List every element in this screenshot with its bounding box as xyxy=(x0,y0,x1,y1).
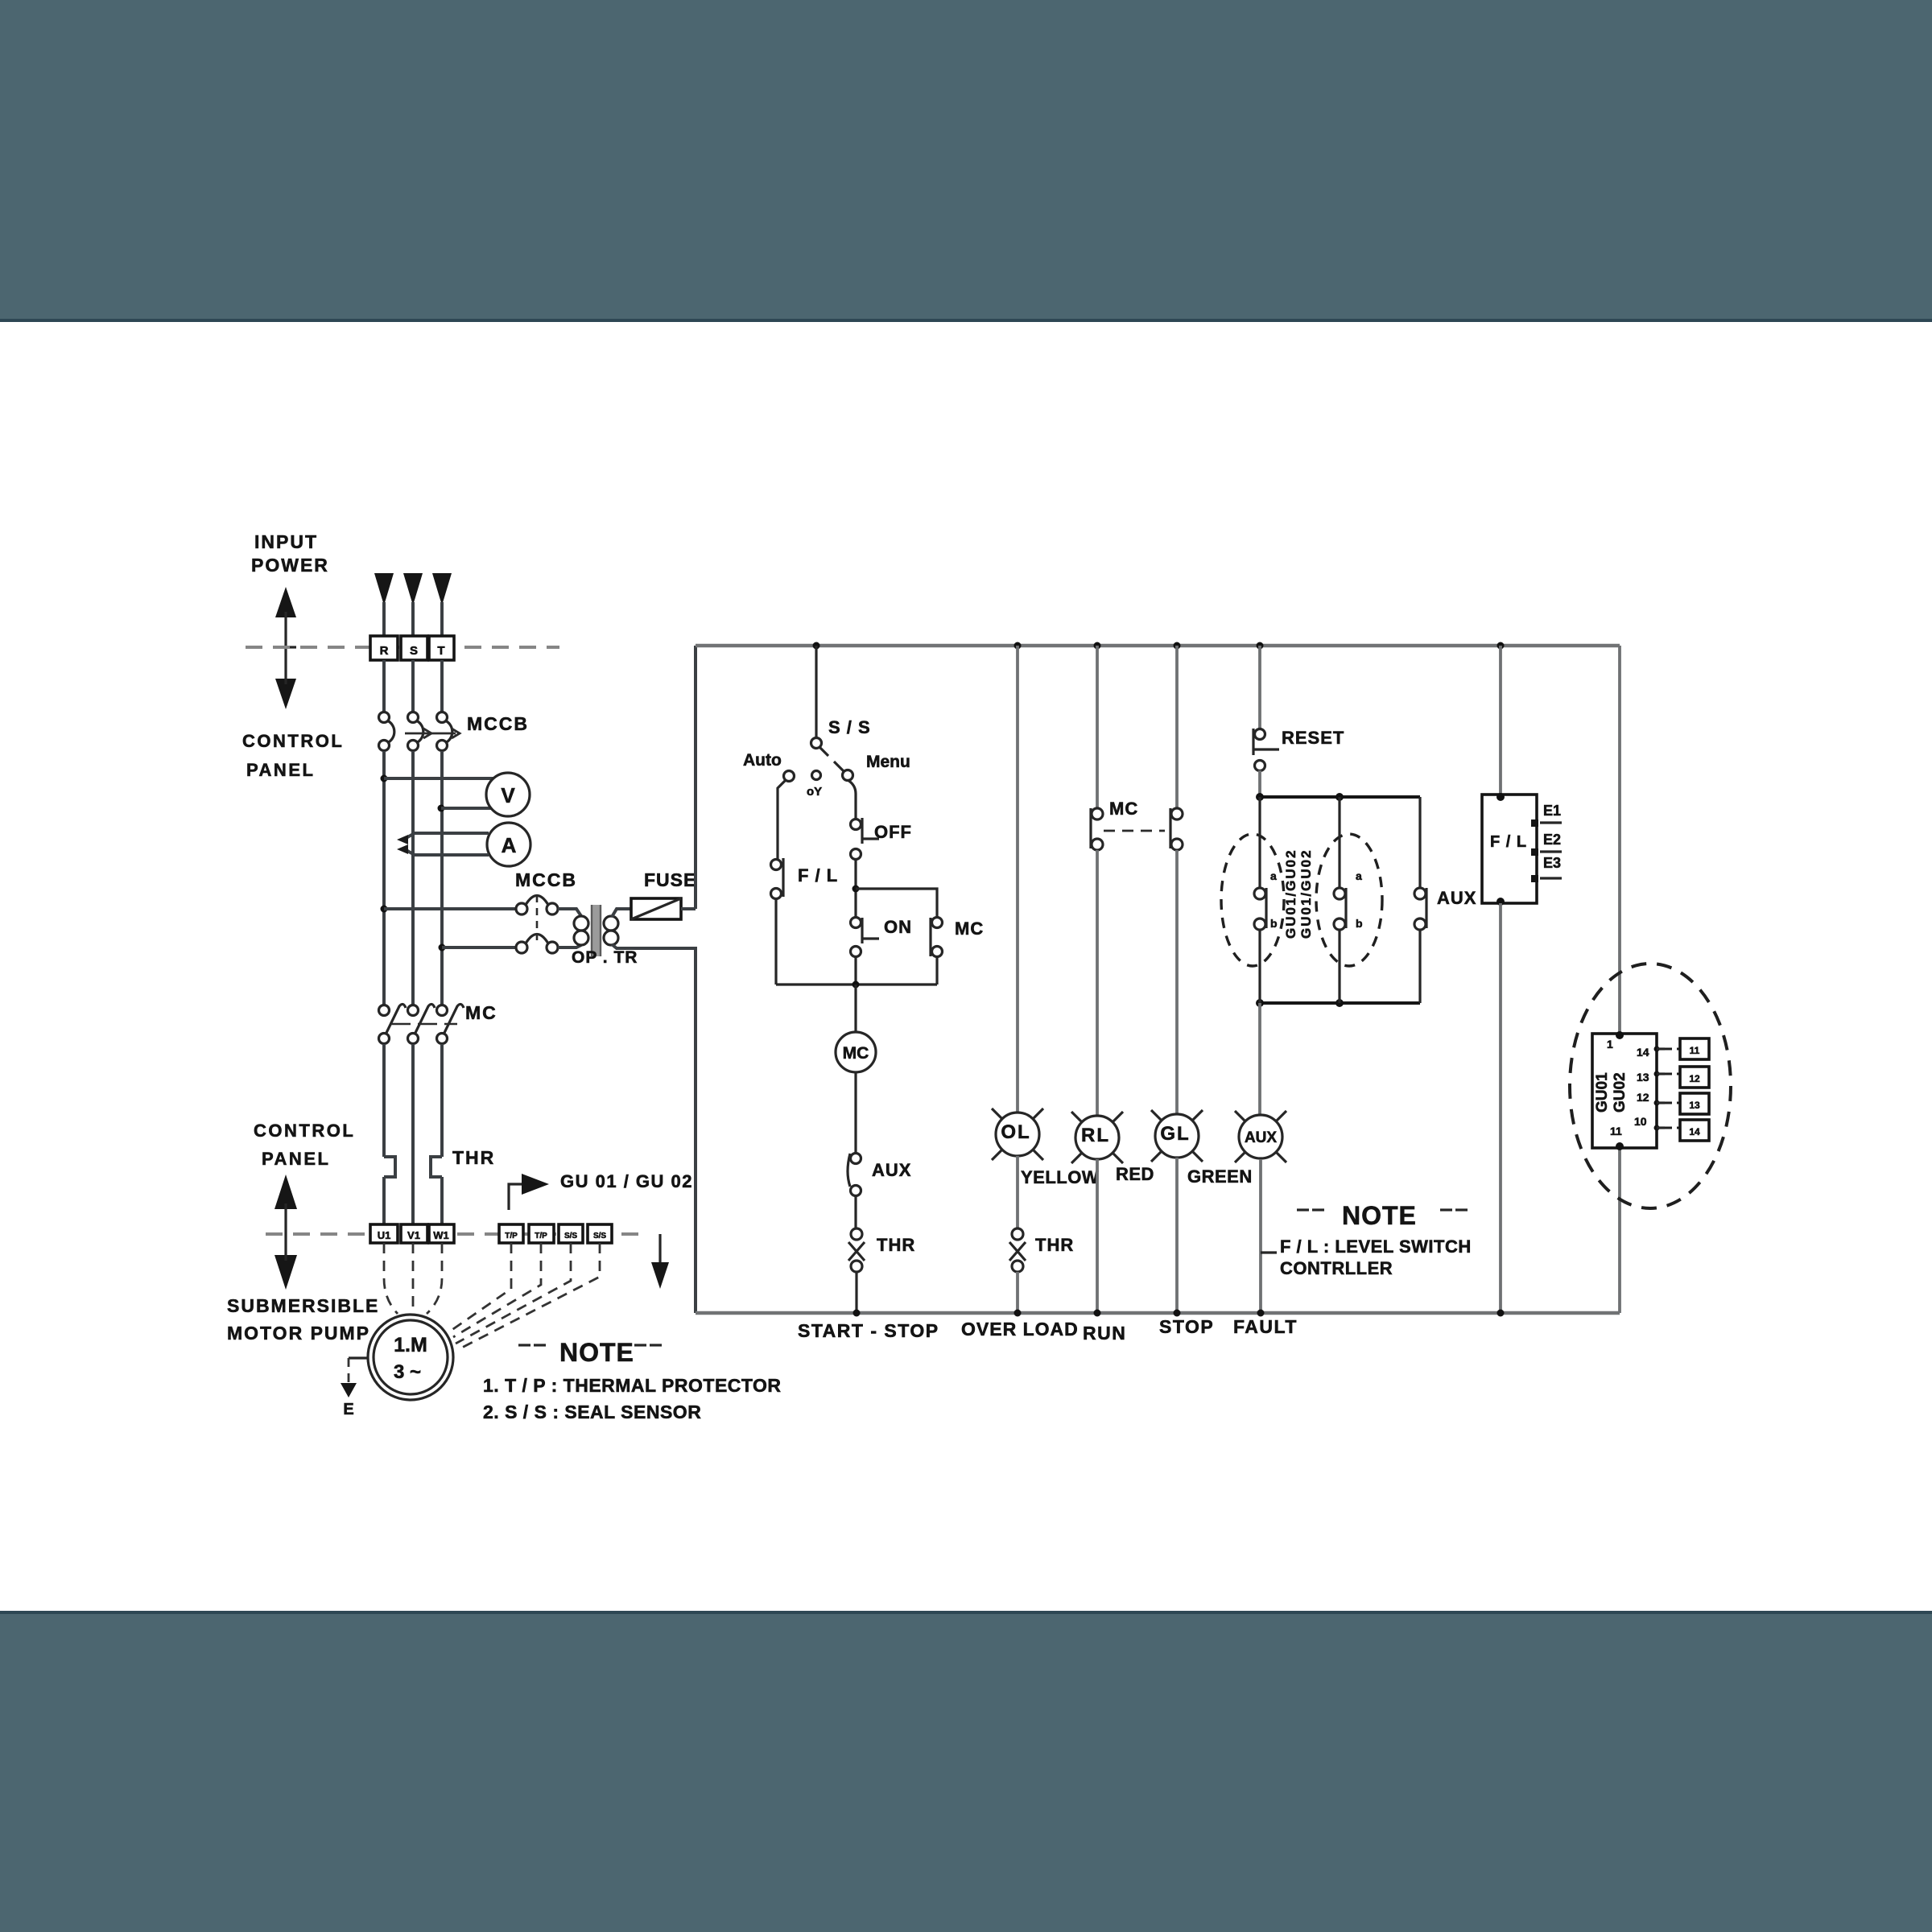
svg-text:3 ~: 3 ~ xyxy=(394,1361,421,1383)
contact F/L (auto level switch) xyxy=(771,858,784,899)
node top rail OL xyxy=(1014,642,1022,650)
node fault bus bottom left xyxy=(1256,999,1264,1007)
ammeter CT leads xyxy=(403,833,489,855)
wire L2 below MCCB xyxy=(411,751,415,1005)
transformer secondary wires xyxy=(612,909,631,917)
down arrow to pump xyxy=(658,1234,661,1264)
svg-text:a: a xyxy=(1356,869,1362,882)
dashed sensor lead 1 xyxy=(451,1243,511,1331)
sensor terminal box S/S b xyxy=(588,1224,612,1243)
lamp RL xyxy=(1071,1112,1123,1163)
wire to MC hold contact xyxy=(856,889,937,917)
svg-text:E1: E1 xyxy=(1543,803,1561,819)
svg-text:1: 1 xyxy=(1607,1038,1613,1051)
wire FAULT column to RESET xyxy=(1258,646,1261,729)
svg-text:POWER: POWER xyxy=(251,555,329,576)
svg-text:E3: E3 xyxy=(1543,855,1561,871)
boundary tick at arrow xyxy=(281,646,296,648)
note leader tick xyxy=(1261,1251,1277,1253)
wire fault branch AUX upper xyxy=(1418,797,1421,888)
wire GL lamp to bottom rail xyxy=(1175,1158,1179,1313)
svg-text:AUX: AUX xyxy=(1437,888,1476,908)
wire Auto branch xyxy=(778,780,786,859)
left rail lower (transformer return to bottom rail) xyxy=(694,948,697,1313)
THR heater element L3 xyxy=(431,1157,442,1177)
svg-text:11: 11 xyxy=(1690,1045,1700,1056)
wire L3 THR to terminal xyxy=(440,1177,444,1224)
motor ground wire xyxy=(349,1356,368,1359)
wire F/L to bottom junction xyxy=(774,898,777,985)
node fault bus top left xyxy=(1256,793,1264,801)
sensor terminal box T/P b xyxy=(529,1224,554,1243)
motor 1.M submersible pump xyxy=(368,1315,453,1400)
wire to voltmeter lower lead xyxy=(441,807,494,810)
node bottom rail GL xyxy=(1174,1310,1181,1317)
svg-text:13: 13 xyxy=(1637,1071,1649,1084)
incoming feeder arrow L2 xyxy=(403,573,423,605)
svg-text:F / L : LEVEL SWITCH: F / L : LEVEL SWITCH xyxy=(1280,1236,1472,1257)
svg-text:b: b xyxy=(1270,917,1278,930)
node L3 control tap xyxy=(439,944,446,952)
dashed sensor lead 3 xyxy=(456,1243,571,1344)
node top rail GL xyxy=(1174,642,1181,650)
GU terminal box 4 xyxy=(1680,1120,1709,1141)
contact GU01 fault (NO) xyxy=(1254,888,1266,930)
svg-text:PANEL: PANEL xyxy=(246,760,315,780)
svg-text:GU02: GU02 xyxy=(1612,1072,1629,1113)
control MCCB pole A xyxy=(516,896,558,915)
incoming feeder arrow L3 xyxy=(432,573,452,605)
terminal E1 xyxy=(1531,819,1538,827)
left rail upper (fuse to top rail) xyxy=(694,646,697,909)
wire L3 to control MCCB xyxy=(442,946,516,949)
svg-text:MC: MC xyxy=(843,1044,869,1063)
svg-text:12: 12 xyxy=(1689,1073,1700,1084)
sensor terminal box S/S a xyxy=(559,1224,583,1243)
svg-text:F / L: F / L xyxy=(1490,833,1527,851)
svg-text:MC: MC xyxy=(1109,799,1138,819)
note header (right) xyxy=(1297,1208,1468,1211)
motor terminal box W1 xyxy=(429,1224,454,1243)
wire Menu branch to OFF xyxy=(848,780,856,819)
THR heater element L1 xyxy=(384,1157,395,1177)
wire RL contact to lamp xyxy=(1096,850,1099,1116)
svg-text:14: 14 xyxy=(1689,1126,1700,1137)
contact THR trip (overload) xyxy=(1009,1228,1026,1272)
wire ON to bottom junction xyxy=(854,957,857,985)
node bottom junction xyxy=(852,981,860,989)
node top rail FAULT xyxy=(1257,642,1264,650)
wire GL column upper xyxy=(1175,646,1179,808)
contact MC (run lamp NO) xyxy=(1091,808,1103,850)
wire AUX lamp to bottom rail xyxy=(1259,1159,1262,1313)
svg-text:FUSE: FUSE xyxy=(644,869,696,890)
MCCB main breaker pole 3 xyxy=(437,712,452,751)
wire RL column upper xyxy=(1096,646,1099,808)
svg-text:OL: OL xyxy=(1001,1121,1030,1143)
svg-text:T: T xyxy=(437,644,444,658)
node bottom rail OL xyxy=(1014,1310,1022,1317)
MCCB linkage bar with arrows xyxy=(405,729,460,738)
node bottom rail F/L xyxy=(1497,1310,1505,1317)
pushbutton OFF (NC) xyxy=(851,818,880,860)
GU terminal box 2 xyxy=(1680,1067,1709,1088)
bottom banner band xyxy=(0,1611,1932,1614)
svg-text:GU01/GU02: GU01/GU02 xyxy=(1283,848,1298,939)
contact AUX (NO) xyxy=(848,1154,861,1196)
svg-text:THR: THR xyxy=(877,1235,915,1255)
contact GU02 fault (NO) xyxy=(1334,888,1346,930)
contact AUX fault (NO) xyxy=(1414,888,1426,930)
control MCCB linkage dashed xyxy=(536,895,539,940)
control ladder bottom rail xyxy=(696,1311,1620,1315)
svg-text:E: E xyxy=(343,1401,353,1418)
node GU box top xyxy=(1616,1031,1624,1039)
node top rail F/L xyxy=(1497,642,1505,650)
wire RL lamp to bottom rail xyxy=(1096,1159,1099,1313)
svg-text:CONTROL: CONTROL xyxy=(242,731,344,751)
wire OL lamp to THR xyxy=(1016,1156,1019,1228)
svg-text:14: 14 xyxy=(1637,1046,1649,1059)
lamp AUX xyxy=(1235,1111,1286,1162)
MC contactor pole 3 xyxy=(437,1004,464,1043)
contact MC holding (NO) xyxy=(931,918,943,957)
svg-text:START - STOP: START - STOP xyxy=(798,1320,939,1341)
svg-text:CONTRLLER: CONTRLLER xyxy=(1280,1258,1393,1278)
svg-text:NOTE: NOTE xyxy=(1342,1201,1417,1230)
svg-text:YELLOW: YELLOW xyxy=(1021,1167,1099,1187)
GU pin stub 4 xyxy=(1654,1125,1660,1131)
wire RESET to fault group xyxy=(1258,770,1261,797)
node L1 voltmeter tap xyxy=(381,775,388,782)
contact THR trip (start-stop) xyxy=(848,1228,865,1272)
lamp OL xyxy=(992,1108,1043,1160)
GU terminal box 1 xyxy=(1680,1038,1709,1059)
svg-text:FAULT: FAULT xyxy=(1233,1316,1298,1337)
svg-text:AUX: AUX xyxy=(1245,1129,1277,1146)
dashed motor lead U xyxy=(384,1243,398,1314)
svg-text:13: 13 xyxy=(1689,1100,1700,1111)
svg-text:MCCB: MCCB xyxy=(515,869,577,890)
control MCCB pole B xyxy=(516,935,558,954)
sensor terminal box T/P a xyxy=(499,1224,523,1243)
svg-text:NOTE: NOTE xyxy=(559,1338,634,1367)
wire L2 drop to terminal xyxy=(411,602,415,636)
svg-text:T/P: T/P xyxy=(535,1232,547,1241)
svg-text:PANEL: PANEL xyxy=(262,1149,330,1169)
svg-text:MC: MC xyxy=(465,1002,497,1023)
wire bottom junction bar xyxy=(776,983,937,985)
svg-text:OFF: OFF xyxy=(874,822,912,842)
panel boundary dashed line (top) xyxy=(246,646,559,649)
node L3 voltmeter tap xyxy=(438,805,445,812)
wire junction to MC coil xyxy=(854,985,857,1032)
wire MC coil to AUX contact xyxy=(854,1072,857,1153)
fault group bottom bus xyxy=(1260,1001,1420,1005)
svg-text:E2: E2 xyxy=(1543,832,1561,848)
wire L3 terminal to MCCB xyxy=(440,660,444,712)
svg-text:S / S: S / S xyxy=(828,717,871,737)
wire F/L box to bottom rail xyxy=(1499,903,1502,1313)
transformer OP.TR primary wires xyxy=(558,909,581,916)
wire L1 below MCCB xyxy=(382,751,386,1005)
MC contactor linkage xyxy=(391,1023,457,1026)
dashed ellipse GU01 group xyxy=(1221,834,1284,966)
GU pin stub 1 xyxy=(1654,1046,1660,1052)
svg-text:MCCB: MCCB xyxy=(467,713,529,734)
svg-text:OP . TR: OP . TR xyxy=(572,948,638,967)
svg-text:RUN: RUN xyxy=(1083,1323,1126,1344)
svg-text:2. S / S : SEAL SENSOR: 2. S / S : SEAL SENSOR xyxy=(483,1402,701,1422)
svg-text:S: S xyxy=(410,644,418,658)
lamp GL xyxy=(1151,1110,1203,1162)
contact MC (stop lamp NC) xyxy=(1170,808,1183,850)
motor terminal box U1 xyxy=(370,1224,398,1243)
dashed sensor lead 2 xyxy=(453,1243,541,1337)
terminal E3 xyxy=(1531,875,1538,882)
svg-text:OVER LOAD: OVER LOAD xyxy=(961,1319,1079,1340)
dashed sensor lead 4 xyxy=(457,1243,600,1350)
wire L3 below MCCB xyxy=(440,751,444,1005)
terminal box R xyxy=(370,636,398,660)
fuse FUSE xyxy=(631,898,681,919)
boundary arrow (pump side) xyxy=(275,1174,297,1290)
transformer OP.TR core xyxy=(592,905,600,956)
wire L2 terminal to MCCB xyxy=(411,660,415,712)
svg-text:MC: MC xyxy=(955,919,984,939)
svg-text:10: 10 xyxy=(1634,1115,1647,1128)
wire L3 MC to THR xyxy=(440,1044,444,1157)
svg-text:V: V xyxy=(501,783,515,807)
svg-text:F / L: F / L xyxy=(798,865,838,885)
svg-text:a: a xyxy=(1270,869,1277,882)
wire fault group to AUX lamp xyxy=(1258,1003,1261,1116)
terminal box S xyxy=(401,636,427,660)
svg-text:1.M: 1.M xyxy=(394,1334,427,1356)
wire L1 THR to terminal xyxy=(382,1177,386,1224)
GU controller box xyxy=(1592,1034,1657,1148)
svg-text:ON: ON xyxy=(884,917,912,937)
dashed motor lead W xyxy=(427,1243,442,1314)
node F/L box top xyxy=(1496,793,1505,801)
transformer OP.TR secondary coil xyxy=(604,916,618,931)
transformer OP.TR primary coil xyxy=(574,916,588,931)
selector switch S/S xyxy=(784,738,853,782)
ammeter A xyxy=(487,823,530,866)
panel boundary dashed line (bottom) xyxy=(266,1232,644,1236)
GU terminal box 3 xyxy=(1680,1093,1709,1114)
node bottom rail RL xyxy=(1094,1310,1101,1317)
svg-text:W1: W1 xyxy=(433,1229,449,1241)
svg-text:S/S: S/S xyxy=(593,1232,606,1241)
F/L level switch controller box xyxy=(1482,795,1537,903)
wire THR to bottom rail (overload) xyxy=(1016,1272,1019,1313)
node ON/MC parallel top xyxy=(852,885,860,893)
svg-text:oY: oY xyxy=(807,785,822,799)
wire OFF to ON xyxy=(854,860,857,917)
wire AUX to THR contact xyxy=(854,1196,857,1228)
note header (left) xyxy=(518,1344,662,1346)
wire fault branch 1 upper xyxy=(1258,797,1261,888)
svg-text:A: A xyxy=(502,833,517,857)
svg-text:RED: RED xyxy=(1116,1164,1154,1184)
wire L1 to control MCCB xyxy=(384,907,516,910)
svg-text:U1: U1 xyxy=(378,1229,391,1241)
svg-text:Auto: Auto xyxy=(743,751,782,770)
incoming feeder arrow L1 xyxy=(374,573,394,605)
svg-text:RL: RL xyxy=(1081,1125,1110,1146)
voltmeter V xyxy=(486,773,530,816)
wire OL column upper xyxy=(1016,646,1019,1113)
fault group top bus xyxy=(1260,795,1420,799)
terminal box T xyxy=(429,636,454,660)
wire L3 drop to terminal xyxy=(440,602,444,636)
svg-text:T/P: T/P xyxy=(505,1232,518,1241)
svg-text:SUBMERSIBLE: SUBMERSIBLE xyxy=(227,1295,379,1316)
node fault bus bottom mid xyxy=(1335,999,1344,1007)
MCCB main breaker pole 1 xyxy=(379,712,394,751)
wire to voltmeter xyxy=(384,777,494,780)
GU pin stub 2 xyxy=(1654,1071,1660,1077)
wire L2 MC to terminal xyxy=(411,1044,415,1224)
wire L1 MC to THR xyxy=(382,1044,386,1157)
wire L1 terminal to MCCB xyxy=(382,660,386,712)
wire fault branch 2 lower xyxy=(1338,930,1340,1003)
svg-text:AUX: AUX xyxy=(872,1160,911,1180)
svg-text:CONTROL: CONTROL xyxy=(254,1121,355,1141)
dashed motor lead V xyxy=(412,1243,415,1312)
ground symbol E xyxy=(341,1383,357,1397)
wire MC hold to bottom junction xyxy=(935,957,938,985)
wire fault branch 2 upper xyxy=(1338,797,1340,888)
linkage MC lamp contacts dashed xyxy=(1104,830,1165,832)
coil MC xyxy=(836,1032,876,1072)
MCCB main breaker pole 2 xyxy=(408,712,423,751)
svg-text:GU 01 / GU 02: GU 01 / GU 02 xyxy=(560,1171,693,1191)
svg-text:THR: THR xyxy=(1035,1235,1074,1255)
svg-text:S/S: S/S xyxy=(564,1232,577,1241)
svg-text:THR: THR xyxy=(452,1147,495,1168)
wire fuse to left rail xyxy=(681,907,696,910)
node top rail start-stop xyxy=(813,642,820,650)
GU pin stub 3 xyxy=(1654,1100,1660,1106)
svg-text:STOP: STOP xyxy=(1159,1316,1214,1337)
svg-text:R: R xyxy=(380,644,389,658)
dashed ellipse GU02 group xyxy=(1316,834,1382,966)
node L1 control tap xyxy=(381,906,388,913)
control ladder right rail lower xyxy=(1618,1148,1621,1313)
MC contactor pole 2 xyxy=(408,1004,436,1043)
svg-text:GREEN: GREEN xyxy=(1187,1166,1253,1187)
svg-text:11: 11 xyxy=(1610,1125,1622,1137)
terminal E2 xyxy=(1531,848,1538,856)
svg-text:GU01/GU02: GU01/GU02 xyxy=(1298,848,1314,939)
wire L1 drop to terminal xyxy=(382,602,386,636)
boundary arrow (input power side) xyxy=(275,587,296,709)
node fault bus top mid xyxy=(1335,793,1344,801)
svg-text:b: b xyxy=(1356,917,1363,930)
wire F/L column upper xyxy=(1499,646,1502,797)
node top rail RL xyxy=(1094,642,1101,650)
GU signal arrow xyxy=(509,1184,522,1210)
control ladder top rail xyxy=(696,644,1620,648)
wire fault branch AUX lower xyxy=(1418,930,1421,1003)
svg-text:V1: V1 xyxy=(407,1229,420,1241)
wire fault branch 1 lower xyxy=(1258,930,1261,1003)
svg-text:INPUT: INPUT xyxy=(254,531,318,552)
node bottom rail FAULT xyxy=(1257,1310,1265,1317)
control ladder right rail upper xyxy=(1618,646,1621,1034)
pushbutton ON (NO) xyxy=(851,918,880,957)
svg-text:GU01: GU01 xyxy=(1594,1072,1611,1113)
pushbutton RESET (NC) xyxy=(1253,729,1279,771)
node F/L box bottom xyxy=(1496,898,1505,906)
node bottom rail start-stop xyxy=(853,1310,861,1317)
node GU box bottom xyxy=(1616,1142,1624,1150)
MC contactor pole 1 xyxy=(379,1004,407,1043)
wire THR to bottom rail xyxy=(855,1272,857,1313)
wire rail to selector S/S xyxy=(815,646,817,737)
svg-text:12: 12 xyxy=(1637,1091,1649,1104)
svg-text:RESET: RESET xyxy=(1282,728,1344,748)
svg-text:GL: GL xyxy=(1160,1123,1190,1145)
wire GL contact to lamp xyxy=(1175,850,1179,1114)
svg-text:MOTOR PUMP: MOTOR PUMP xyxy=(227,1323,370,1344)
svg-text:Menu: Menu xyxy=(866,753,910,771)
svg-text:1. T / P : THERMAL PROTECTOR: 1. T / P : THERMAL PROTECTOR xyxy=(483,1375,782,1396)
motor terminal box V1 xyxy=(401,1224,427,1243)
top banner band xyxy=(0,0,1932,319)
dashed ellipse GU controller xyxy=(1570,964,1731,1208)
